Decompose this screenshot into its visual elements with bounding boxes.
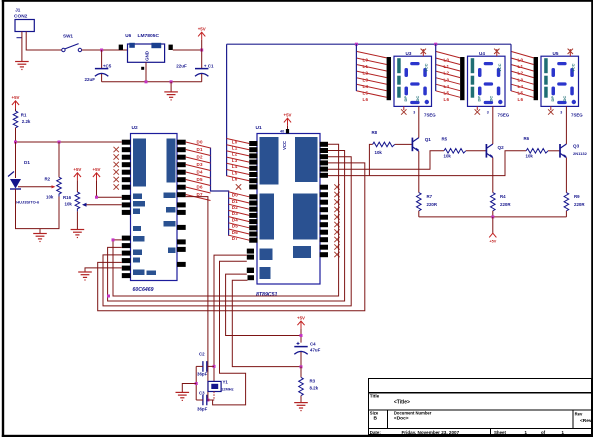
power symbol (rail, down) (489, 217, 496, 244)
svg-text:Q3: Q3 (573, 144, 580, 149)
svg-text:D3: D3 (232, 211, 238, 216)
svg-text:L2: L2 (444, 71, 450, 76)
svg-text:CON2: CON2 (14, 14, 28, 20)
svg-text:D5: D5 (232, 224, 238, 229)
svg-text:J1: J1 (15, 8, 21, 13)
wire R7 tail (418, 211, 420, 217)
wire Q2 collector to U4 common (492, 106, 494, 144)
svg-text:L1: L1 (363, 64, 369, 69)
svg-text:8T89C51: 8T89C51 (256, 292, 277, 298)
bus drop to U4 (435, 44, 437, 91)
capacitor C4 47uF (294, 342, 320, 367)
svg-text:2N1132: 2N1132 (573, 151, 588, 156)
node (C5 tap) (100, 49, 103, 52)
svg-text:10k: 10k (526, 154, 534, 159)
svg-text:+5V: +5V (93, 167, 101, 172)
svg-text:L0: L0 (518, 58, 524, 63)
no-connect X (U3 DP) (401, 106, 415, 114)
no-connect X (U1 left) (236, 184, 241, 189)
display U5 (534, 51, 584, 117)
svg-text:L5: L5 (363, 90, 369, 95)
resistor R3 8.2k (299, 367, 319, 403)
svg-text:L0: L0 (444, 58, 450, 63)
wire U1 pin to R8 (369, 144, 372, 175)
svg-text:<Doc>: <Doc> (394, 416, 409, 422)
svg-text:36pF: 36pF (197, 372, 208, 377)
wire bottom rail (102, 81, 202, 83)
wire R16 wiper to U2 (86, 204, 122, 206)
svg-text:R16: R16 (63, 195, 72, 200)
transistor Q1 (412, 137, 431, 151)
bus entries U2 side with labels D0-D7 (186, 142, 211, 201)
svg-text:Date:: Date: (370, 430, 382, 435)
capacitor C1 (176, 50, 214, 82)
wire Q3 collector to U5 common (565, 106, 567, 144)
no-connect X (U5 DP) (548, 106, 562, 114)
svg-text:L4: L4 (363, 84, 369, 89)
+5V (U2 ref) (93, 167, 122, 197)
capacitor C5 (85, 50, 112, 82)
svg-text:SW1: SW1 (63, 34, 73, 39)
svg-text:60C6469: 60C6469 (133, 287, 154, 293)
svg-text:U1: U1 (256, 125, 262, 131)
svg-text:GND: GND (145, 51, 150, 61)
svg-text:R5: R5 (442, 137, 448, 142)
svg-text:7SEG: 7SEG (424, 112, 436, 117)
svg-text:L6: L6 (518, 97, 524, 102)
+5V (R16) (73, 167, 81, 192)
ground (J1) (15, 62, 29, 70)
node (170, 80, 173, 83)
svg-text:Document Number: Document Number (394, 410, 432, 415)
svg-text:L4: L4 (518, 84, 524, 89)
svg-text:Q1: Q1 (425, 137, 432, 142)
svg-text:L2: L2 (232, 152, 238, 157)
bus wire (L bus) (227, 43, 511, 45)
svg-text:L5: L5 (518, 90, 524, 95)
svg-text:L2: L2 (518, 71, 524, 76)
wire Q2 emitter to R4 (492, 158, 494, 193)
potentiometer R16 10k (63, 192, 80, 211)
svg-text:R9: R9 (574, 194, 580, 199)
svg-text:Title: Title (370, 394, 380, 399)
transistor Q2 (486, 144, 504, 158)
wire U1 P2 routes to long runs (98, 144, 365, 310)
svg-text:220R: 220R (574, 202, 585, 207)
node (145, 80, 148, 83)
svg-text:R2: R2 (45, 177, 51, 182)
resistor R1 2.2k (13, 111, 31, 128)
wire D1 to loop bottom (16, 189, 60, 229)
IC U2 body (131, 125, 178, 293)
wire U2 AGND pin (85, 268, 122, 272)
bus entries U1 left with labels L0-L6 (227, 139, 250, 181)
wire U1 XTAL1 down (214, 255, 247, 381)
svg-text:Y1: Y1 (223, 380, 229, 385)
svg-text:D5: D5 (197, 177, 203, 182)
node (434, 43, 437, 46)
wire emitter rail (419, 216, 567, 218)
svg-text:<Title>: <Title> (394, 399, 410, 405)
wire U1 EA to +5V node (232, 280, 301, 366)
svg-text:220R: 220R (427, 202, 438, 207)
svg-text:3: 3 (560, 110, 562, 114)
resistor R9 220R (564, 193, 585, 211)
U2 right pins (177, 140, 186, 267)
svg-text:+5V: +5V (489, 239, 496, 243)
capacitor C3 (196, 391, 214, 412)
svg-text:3: 3 (487, 110, 489, 114)
node (491, 215, 494, 218)
wire Q3 emitter to R9 (565, 158, 567, 193)
svg-text:D2: D2 (232, 205, 238, 210)
svg-text:D4: D4 (232, 217, 238, 222)
bus entries U3 with labels L0-L6 (356, 51, 386, 97)
svg-text:U3: U3 (406, 51, 412, 56)
svg-text:C3: C3 (199, 391, 205, 396)
no-connect X (U4 DP) (475, 106, 489, 114)
no-connect X (U4 VCC) (494, 49, 499, 57)
wire D1 wiper to R2 (18, 186, 52, 188)
svg-text:Q2: Q2 (498, 145, 505, 150)
wire Q1 emitter to R7 (418, 151, 420, 192)
svg-text:47uF: 47uF (310, 348, 321, 353)
svg-text:R1: R1 (21, 112, 27, 117)
wire to crystal ground (182, 384, 196, 393)
svg-text:Sheet: Sheet (494, 430, 506, 435)
node (300, 334, 303, 337)
wire cap common leg (195, 366, 197, 400)
node (95, 196, 98, 199)
svg-text:L2: L2 (363, 71, 369, 76)
svg-text:L1: L1 (518, 64, 524, 69)
U2 left pins (122, 140, 131, 278)
node (112, 238, 115, 241)
svg-text:40: 40 (280, 130, 284, 134)
svg-text:Rev: Rev (575, 411, 583, 416)
resistor R5 10k (442, 137, 466, 159)
svg-text:Size: Size (370, 410, 379, 415)
svg-text:+5V: +5V (12, 95, 20, 100)
wire J1 pin1 to ground (21, 32, 23, 62)
bus drop to U3 (355, 44, 357, 91)
svg-text:220R: 220R (500, 202, 511, 207)
node (355, 43, 358, 46)
svg-text:D1: D1 (232, 199, 238, 204)
svg-text:U6: U6 (125, 33, 131, 38)
U2 inner pin-name blobs (133, 139, 176, 276)
wire Q1 collector to U3 common (418, 106, 420, 137)
bus entries U5 with labels L0-L6 (511, 51, 534, 97)
wire R1 bottom to U2 pin1 (16, 128, 122, 142)
svg-text:R8: R8 (372, 130, 378, 135)
node (206, 399, 209, 402)
wire J1 pin2 to switch (26, 32, 62, 51)
svg-text:HUJ3SITO-6: HUJ3SITO-6 (16, 200, 40, 205)
svg-text:D3: D3 (197, 162, 203, 167)
U1 left pins (247, 141, 258, 280)
photodiode D1 (8, 160, 40, 204)
svg-text:L3: L3 (444, 77, 450, 82)
svg-text:U2: U2 (132, 125, 138, 131)
svg-text:L3: L3 (363, 77, 369, 82)
+5V (C4) (297, 315, 305, 342)
no-connect X (U3 VCC) (421, 49, 426, 57)
svg-text:L4: L4 (444, 84, 450, 89)
U1 right no-connect X marks (334, 184, 339, 257)
svg-text:L5: L5 (444, 90, 450, 95)
svg-text:VCC: VCC (282, 141, 287, 150)
svg-text:R3: R3 (310, 378, 316, 383)
svg-text:U4: U4 (479, 51, 485, 56)
+5V (main rail) (198, 27, 206, 50)
svg-text:3: 3 (413, 110, 415, 114)
node (58, 141, 61, 144)
svg-text:Friday, November 23, 2007: Friday, November 23, 2007 (402, 430, 460, 435)
ground (D1 loop) (33, 234, 47, 242)
IC U1 body (256, 125, 321, 298)
switch SW1 (62, 34, 82, 52)
wire U1 XTAL2 loop (213, 261, 247, 405)
svg-text:8.2k: 8.2k (310, 385, 319, 390)
+5V (R1) (12, 95, 20, 111)
pin 40 VCC (280, 129, 289, 150)
bus entries U4 with labels L0-L6 (436, 51, 460, 97)
no-connect X (U5 VCC) (568, 49, 573, 57)
wire U2 CLK pin to crystal node (186, 197, 208, 400)
wire U6 output to +5V node (173, 49, 202, 51)
svg-text:10k: 10k (375, 150, 383, 155)
+5V (U1 VCC) (284, 113, 292, 134)
wire R6 to Q3 base (548, 150, 560, 152)
svg-text:D1: D1 (24, 160, 30, 165)
svg-text:D6: D6 (232, 230, 238, 235)
svg-text:LM7805C: LM7805C (138, 33, 160, 39)
svg-text:L1: L1 (232, 146, 238, 151)
svg-text:22uF: 22uF (85, 77, 96, 82)
svg-text:12MHz: 12MHz (221, 387, 234, 392)
svg-text:22uF: 22uF (176, 64, 187, 69)
svg-text:+C5: +C5 (103, 64, 112, 69)
bus wire (D bus) (211, 148, 229, 236)
svg-text:L6: L6 (232, 177, 238, 182)
regulator U6 LM7805C (119, 33, 173, 70)
svg-text:L0: L0 (232, 139, 238, 144)
wire R5 to Q2 base (466, 150, 487, 152)
svg-text:+5V: +5V (73, 167, 81, 172)
U1 right pins (320, 142, 328, 257)
potentiometer R2 10k (45, 142, 62, 200)
wire R4 tail (492, 211, 494, 217)
svg-text:10k: 10k (444, 154, 452, 159)
svg-text:D0: D0 (197, 140, 203, 145)
svg-text:10k: 10k (65, 201, 73, 206)
wire R16 bottom to ground (76, 211, 78, 229)
wire ground tap (39, 229, 41, 234)
svg-text:+5V: +5V (297, 315, 305, 320)
node (213, 365, 216, 368)
bus drop to U5 (510, 44, 512, 91)
svg-text:D0: D0 (232, 193, 238, 198)
wire ground stem (170, 82, 172, 92)
svg-text:2.2k: 2.2k (22, 119, 31, 124)
ground (U2) (78, 272, 92, 280)
wire switch to U6 input (82, 49, 128, 51)
ground (crystal) (176, 392, 190, 400)
svg-text:L1: L1 (444, 64, 450, 69)
svg-text:+ C1: + C1 (204, 64, 214, 69)
transistor Q3 2N1132 (560, 144, 588, 158)
svg-text:D1: D1 (197, 147, 203, 152)
svg-text:+5V: +5V (198, 27, 206, 32)
svg-text:10k: 10k (46, 195, 54, 200)
svg-text:D6: D6 (197, 185, 203, 190)
node (200, 49, 203, 52)
display U3 (387, 51, 437, 117)
svg-text:L6: L6 (363, 97, 369, 102)
U2 left no-connect X marks (114, 147, 119, 190)
ground (regulator) (164, 92, 178, 100)
resistor R6 10k (524, 136, 549, 158)
bus entries U1 side with labels D0-D7 (229, 192, 250, 240)
wire U1 pin to R5 feeder (328, 151, 444, 169)
resistor R7 220R (417, 193, 438, 211)
svg-text:R7: R7 (427, 194, 433, 199)
node (300, 365, 303, 368)
svg-text:R6: R6 (524, 136, 530, 141)
U1 inner pin-name blobs (260, 137, 318, 279)
ground (R16) (71, 230, 85, 238)
svg-text:D2: D2 (197, 155, 203, 160)
svg-text:D7: D7 (232, 236, 238, 241)
svg-text:C4: C4 (310, 342, 316, 347)
svg-text:L3: L3 (518, 77, 524, 82)
svg-text:7SEG: 7SEG (571, 112, 583, 117)
resistor R8 10k (372, 130, 395, 155)
svg-text:L5: L5 (232, 170, 238, 175)
resistor R4 220R (491, 193, 512, 211)
wire R9 tail (565, 211, 567, 217)
wire U1 pin to R6 feeder (328, 151, 526, 176)
crystal Y1 12MHz (208, 380, 234, 400)
ground (R3) (294, 403, 308, 411)
node (107, 295, 110, 298)
svg-text:+5V: +5V (284, 113, 292, 118)
wire down to D1 (15, 142, 17, 178)
svg-text:D4: D4 (197, 170, 203, 175)
svg-text:R4: R4 (500, 194, 506, 199)
wire U6 gnd pin down (145, 62, 147, 82)
node (14, 141, 17, 144)
connector J1 (14, 8, 34, 38)
svg-text:L4: L4 (232, 164, 238, 169)
svg-text:of: of (541, 430, 546, 435)
svg-text:B: B (374, 416, 378, 422)
node (195, 382, 198, 385)
svg-text:L3: L3 (232, 158, 238, 163)
svg-text:7SEG: 7SEG (498, 112, 510, 117)
wire U1 RST to R3/C4 node (226, 274, 301, 335)
svg-text:U5: U5 (553, 51, 559, 56)
svg-text:L0: L0 (363, 58, 369, 63)
capacitor C2 (196, 352, 214, 377)
svg-text:36pF: 36pF (197, 407, 208, 412)
svg-text:C2: C2 (199, 352, 205, 357)
display U4 (460, 51, 510, 117)
wire R8 to Q1 base (395, 143, 413, 145)
svg-text:L6: L6 (444, 97, 450, 102)
svg-text:<Rev: <Rev (580, 418, 592, 424)
